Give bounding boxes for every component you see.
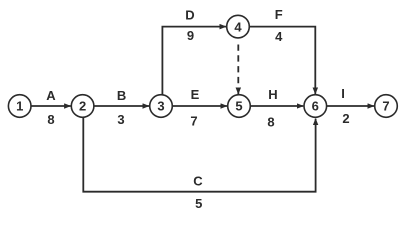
wire H: arrow from node 5 to node 6 xyxy=(250,105,303,107)
svg-text:H: H xyxy=(268,87,277,102)
svg-text:A: A xyxy=(46,88,56,103)
wire A: arrow from node 1 to node 2 xyxy=(31,105,70,107)
node 3 xyxy=(150,95,173,118)
svg-text:D: D xyxy=(185,8,194,23)
svg-text:5: 5 xyxy=(195,196,202,211)
node 1 xyxy=(8,95,31,118)
svg-text:B: B xyxy=(117,88,126,103)
svg-text:6: 6 xyxy=(312,99,319,114)
svg-text:2: 2 xyxy=(79,99,86,114)
wire B: arrow from node 2 to node 3 xyxy=(94,105,149,107)
svg-text:2: 2 xyxy=(342,111,349,126)
node 6 xyxy=(304,95,327,118)
svg-text:7: 7 xyxy=(382,99,389,114)
wire I: arrow from node 6 to node 7 xyxy=(327,105,374,107)
svg-text:4: 4 xyxy=(234,19,242,34)
svg-text:F: F xyxy=(275,7,283,22)
svg-text:3: 3 xyxy=(157,99,164,114)
svg-text:I: I xyxy=(341,86,345,101)
node 5 xyxy=(228,95,251,118)
node 7 xyxy=(375,95,398,118)
svg-text:8: 8 xyxy=(267,114,274,129)
wire C: elbow arrow from node 2 down, right along bottom and up to node 6 xyxy=(83,117,315,191)
svg-text:4: 4 xyxy=(275,29,283,44)
dummy activity: dashed arrow from node 4 down to node 5 xyxy=(237,45,239,95)
svg-text:3: 3 xyxy=(117,112,124,127)
wire F: elbow arrow from node 4 right and down to node 6 xyxy=(249,27,315,94)
wire D: elbow arrow from node 3 up and right to node 4 xyxy=(162,27,226,95)
svg-text:1: 1 xyxy=(16,99,23,114)
svg-text:9: 9 xyxy=(187,28,194,43)
node 2 xyxy=(71,95,94,118)
svg-text:8: 8 xyxy=(47,112,54,127)
svg-text:E: E xyxy=(191,87,200,102)
node 4 xyxy=(227,15,250,38)
wire E: arrow from node 3 to node 5 xyxy=(172,105,227,107)
svg-text:7: 7 xyxy=(190,113,197,128)
svg-text:5: 5 xyxy=(235,99,242,114)
svg-text:C: C xyxy=(193,174,203,189)
